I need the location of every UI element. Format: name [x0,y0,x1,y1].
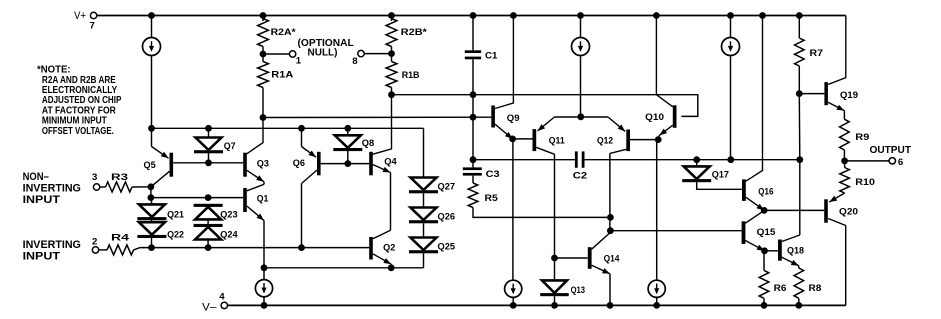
wire Q20 base line [764,209,824,211]
current source I2 [572,38,590,56]
wire R8 leadin [798,266,800,268]
capacitor C2 [575,151,578,167]
svg-text:Q21: Q21 [167,209,184,219]
svg-text:R10: R10 [855,177,875,187]
svg-text:Q9: Q9 [507,113,520,123]
node tail [388,264,395,271]
resistor R4 [107,245,134,255]
wire V+ top rail [97,15,846,17]
svg-text:Q12: Q12 [597,135,613,145]
terminal pin 1 [289,51,295,57]
node trim 1 [260,51,267,58]
current source I1 [143,38,161,56]
wire R2B to node8 [391,47,393,62]
wire Q12 collector down [609,153,611,230]
svg-text:1: 1 [296,55,302,66]
svg-text:OUTPUT: OUTPUT [870,145,912,156]
svg-text:Q8: Q8 [362,138,374,148]
diode Q26 [411,208,437,221]
node Q6 emitter [298,125,305,132]
terminal pin 6 OUTPUT [889,158,895,164]
diode Q22 [139,222,165,235]
wire Q10 emitter down [656,140,658,281]
node R6 rail [761,302,768,309]
resistor R6 [759,270,769,298]
svg-text:R9: R9 [855,132,869,142]
wire Q24 bottom [207,240,209,248]
svg-text:R3: R3 [111,172,128,182]
current source I3 [722,38,740,56]
wire Q17 top [696,160,698,167]
node C1 C3 [470,156,477,163]
wire bias rail y128 [152,127,424,129]
node C1 y94 [470,91,477,98]
wire R6 top [763,251,765,271]
wire R2A to node1 [262,47,264,62]
svg-text:Q1: Q1 [257,194,269,204]
svg-text:V–: V– [202,301,217,313]
wire base Q5-Q3 [173,162,243,164]
transistor Q11 [533,129,537,151]
wire Q2 emitter down [390,264,392,268]
V- terminal pin 4 [221,302,227,308]
node Q3 collector [260,114,267,121]
node R8 rail [795,302,802,309]
svg-text:NON–: NON– [23,171,49,183]
wire Q18 base line [765,250,779,252]
wire R9 to output [843,150,845,161]
node Q24 bottom [205,244,212,251]
wire Q20 collector down [845,226,847,306]
diode Q24 [194,224,223,227]
wire pin2 to R4 [99,249,107,251]
transistor Q20 [824,199,828,222]
wire Q1 emitter down [263,221,265,268]
node Q15 emitter [761,247,768,254]
svg-text:Q5: Q5 [144,160,156,170]
resistor R7 [795,38,805,66]
transistor Q2 [369,237,373,260]
wire Q14 base [555,257,588,259]
wire base line y197 [151,197,243,199]
wire Q11 emitter corner [554,116,580,118]
svg-text:Q3: Q3 [257,158,269,168]
svg-text:R4: R4 [111,233,129,243]
transistor Q14 [588,247,592,269]
wire Q27-Q26 [423,193,425,207]
svg-text:Q7: Q7 [224,141,236,151]
wire Q8 top [347,128,349,135]
current source I4 [255,280,272,297]
transistor Q5 [170,153,174,177]
svg-text:3: 3 [92,172,97,183]
wire Q19 emitter to R9 [843,111,845,120]
wire comp line left [473,159,576,161]
node Q8 cathode [344,160,351,167]
wire Q3 emitter to Q1 collector [263,182,265,185]
svg-text:C2: C2 [573,171,587,181]
svg-text:Q19: Q19 [840,90,858,100]
wire Q19 base [799,93,824,95]
svg-text:NULL): NULL) [308,47,338,58]
terminal pin 2 [92,247,98,253]
svg-text:Q10: Q10 [645,112,664,122]
wire C1 down [472,59,474,159]
wire R1A down [262,88,264,118]
wire Q12 base [630,139,658,141]
transistor Q1 [243,188,247,212]
node Q7 anode [205,125,212,132]
wire rail to I3 [730,16,732,38]
wire Q11 base [513,138,533,140]
resistor R2B [386,19,397,47]
resistor R5 [468,183,478,208]
svg-text:Q14: Q14 [604,253,620,263]
terminal pin 3 [93,184,99,190]
node I4 rail [261,302,268,309]
node Q9 emitter [509,136,516,143]
svg-text:Q16: Q16 [758,186,773,196]
diode Q25 [411,238,437,251]
wire rail to R7 [798,16,800,39]
node R7 bottom [796,156,803,163]
wire I4 top [263,268,265,280]
diode Q27 [411,178,437,191]
resistor R1A [258,62,269,88]
wire output to R10 [844,161,846,168]
wire I3 down [730,56,732,160]
svg-text:Q23: Q23 [220,209,237,219]
wire base line y117 [263,116,491,118]
wire R1B down [391,88,393,95]
svg-text:8: 8 [352,56,358,67]
transistor Q10 [673,105,677,128]
node Q8 anode [344,125,351,132]
svg-text:R1B: R1B [402,70,420,80]
svg-text:R8: R8 [809,283,822,293]
transistor Q19 [824,82,828,105]
svg-text:R1A: R1A [271,70,294,80]
diode Q21 [139,204,165,217]
resistor R10 [840,168,850,194]
wire Q9 emitter down [512,139,514,280]
wire base Q6-Q4 [321,163,370,165]
wire R5 to line [473,208,610,218]
resistor R1B [386,62,397,88]
node Q7 cathode [205,159,212,166]
svg-text:INVERTING: INVERTING [23,183,81,195]
wire I6 bottom [656,297,658,305]
node I4 top [261,264,268,271]
wire rail to I1 [151,16,153,38]
wire R7 down [798,66,800,94]
svg-text:Q17: Q17 [712,169,729,179]
svg-text:Q24: Q24 [220,229,237,239]
svg-text:Q11: Q11 [549,135,565,145]
wire Q6 collector down [301,184,303,248]
svg-text:INPUT: INPUT [23,194,61,206]
diode Q17 [684,166,710,179]
wire base line y94 [392,95,698,117]
node I3 output [727,156,734,163]
current source I5 [505,280,522,297]
svg-text:OFFSET VOLTAGE.: OFFSET VOLTAGE. [42,126,114,137]
wire node to pin1 [263,53,289,55]
wire R8 bottom [798,298,800,305]
wire Q8 bottom [347,151,349,164]
node Q14 collector [607,227,614,234]
node Q16 emitter [761,207,768,214]
terminal pin 8 [358,50,364,56]
transistor Q9 [491,106,495,128]
svg-text:INVERTING: INVERTING [23,239,81,251]
wire rail to R2B [391,16,393,22]
node output [841,158,848,165]
wire pin3 to R3 [100,186,105,188]
wire I5 bottom [512,297,514,305]
svg-text:C1: C1 [485,51,498,61]
wire Q5 emitter [151,128,153,146]
svg-text:7: 7 [90,20,95,31]
node R5 line [607,214,614,221]
wire C3 to R5 [472,160,474,168]
node Q23 top [205,194,212,201]
node Q10 emitter [655,136,662,143]
wire Q15 base line [610,230,741,232]
node A noninv base [148,183,155,190]
resistor R2A [258,19,269,47]
svg-text:Q6: Q6 [293,158,305,168]
wire output [845,160,889,162]
svg-text:INPUT: INPUT [23,251,61,263]
svg-text:Q18: Q18 [787,246,804,256]
wire Q11 collector down [554,154,556,258]
wire Q6 emitter [301,128,303,146]
node Q5 emitter rail [148,125,155,132]
diode Q23 [194,204,223,207]
transistor Q16 [742,179,746,201]
wire comp line right [585,159,800,161]
svg-text:2: 2 [92,236,97,247]
svg-text:Q26: Q26 [438,212,456,222]
node B [148,194,155,201]
capacitor C1 [465,50,481,53]
node Q11 Q12 emitters [577,113,584,120]
svg-text:C3: C3 [486,169,500,179]
node Q14 base [551,255,558,262]
wire Q7 top [208,128,210,137]
wire I2 down [580,56,582,117]
transistor Q18 [778,240,782,261]
svg-text:Q22: Q22 [167,229,184,239]
wire I1 down [151,56,153,129]
wire V- bottom rail [228,304,846,306]
wire Q21-Q22 [151,220,153,222]
wire Q25 bottom [423,253,425,268]
svg-text:Q15: Q15 [757,227,776,237]
svg-text:R7: R7 [810,48,824,58]
node I5 rail [510,302,517,309]
resistor R9 [840,119,850,150]
svg-text:Q25: Q25 [438,242,456,252]
wire Q23-Q24 [207,219,209,224]
svg-text:Q13: Q13 [571,285,585,295]
svg-text:R2B*: R2B* [401,27,428,37]
svg-text:Q20: Q20 [839,207,858,217]
wire I4 bottom [263,297,265,306]
wire R6 bottom [763,298,765,305]
wire Q17 bottom [697,182,742,189]
transistor Q15 [742,221,746,244]
wire R7 chain down [798,94,801,235]
transistor Q6 [317,152,321,176]
svg-text:Q2: Q2 [383,243,395,253]
wire Q14 collector up [609,231,612,233]
svg-text:V+: V+ [74,10,86,22]
wire nodeA to nodeB [150,187,152,198]
wire rail to I2 [580,16,582,38]
wire Q13 bottom [554,296,556,305]
V+ terminal pin 7 [90,12,96,18]
diode Q13 [542,280,567,293]
svg-text:R5: R5 [485,193,498,203]
svg-text:6: 6 [898,157,903,168]
node Q6 collector bottom [298,244,305,251]
node C1 y117 [470,114,477,121]
transistor Q12 [626,130,630,152]
wire Q12 emitter corner [581,116,608,118]
wire Q26-Q25 [423,223,425,237]
svg-text:Q27: Q27 [438,182,456,192]
node R1B bottom [388,91,395,98]
wire node to pin8 [365,53,392,55]
wire rail to C1 [472,16,474,51]
transistor Q4 [369,152,373,176]
wire Q14 emitter down [609,274,611,306]
node I6 rail [653,302,660,309]
svg-text:4: 4 [219,292,225,303]
svg-text:Q4: Q4 [384,157,396,167]
wire R3 to node [132,186,151,188]
svg-text:R6: R6 [774,283,787,293]
wire Q22 bottom [151,238,153,248]
capacitor C3 [463,167,482,170]
node Q13 rail [551,302,558,309]
node Q14 rail [607,302,614,309]
wire Q7 bottom [208,153,210,163]
wire R4 to base line [134,248,370,250]
wire Q8 line to Q27 [423,128,425,177]
node trim 8 [388,50,395,57]
transistor Q3 [243,153,247,177]
wire tail line [264,267,424,269]
diode Q8 [335,135,361,148]
node Q19 base [796,90,803,97]
node Q17 anode [693,156,700,163]
resistor R8 [794,268,804,298]
node Q22 bottom [148,244,155,251]
resistor R3 [106,182,133,192]
wire Q13 top [554,258,556,280]
current source I6 [648,280,665,297]
svg-text:R2A*: R2A* [271,27,297,37]
diode Q7 [196,138,222,151]
wire Q4 emitter to Q2 collector [390,173,392,231]
wire Q21 top [151,198,153,205]
wire rail to R2A [262,16,264,22]
